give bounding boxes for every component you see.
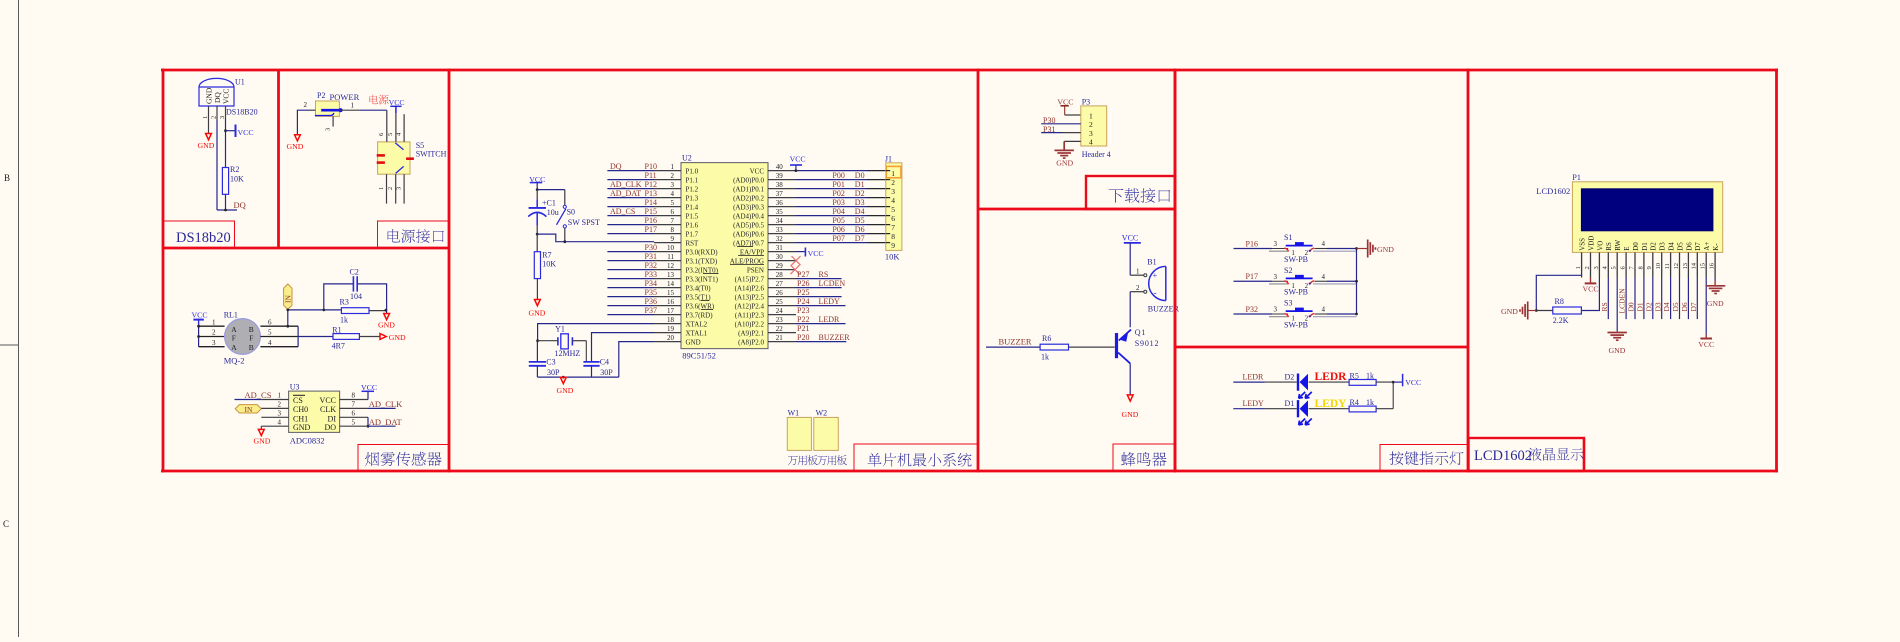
sensor RL1 MQ-2 [225, 319, 261, 355]
wire pin5 to R1 [298, 336, 333, 338]
wire XTAL2 (pin18) [538, 324, 654, 341]
wire LCD pin7 D0 [1634, 278, 1636, 320]
svg-text:P20: P20 [797, 333, 809, 342]
U2 pin 5 [654, 206, 681, 208]
svg-text:LEDY: LEDY [819, 297, 841, 306]
svg-text:VCC: VCC [790, 155, 806, 164]
svg-text:P1.5: P1.5 [686, 212, 699, 220]
svg-text:C3: C3 [546, 358, 555, 367]
resistor R3 [341, 308, 369, 314]
RL1 pin6 wire [260, 325, 298, 327]
svg-text:(A15)P2.7: (A15)P2.7 [735, 275, 765, 283]
U2 pin 25 [768, 305, 796, 307]
wire button GND bus [1356, 249, 1358, 315]
capacitor C1 (polarized) [536, 190, 538, 200]
svg-text:104: 104 [350, 292, 362, 301]
svg-text:C4: C4 [600, 358, 609, 367]
wire LCD pin14 D7 [1696, 278, 1698, 320]
wire/net P34 [607, 287, 654, 289]
U2 pin 3 [654, 188, 681, 190]
svg-text:P02: P02 [832, 189, 844, 198]
svg-text:GND: GND [389, 333, 406, 342]
svg-text:19: 19 [667, 325, 675, 333]
wire U3 pin4 to GND [261, 425, 288, 427]
switch S0 SW SPST [563, 205, 566, 208]
svg-text:P27: P27 [797, 270, 809, 279]
J1 pin stubs inside [886, 170, 890, 172]
S5 pin3 stub [403, 174, 405, 203]
svg-text:4: 4 [1322, 273, 1326, 281]
wire U3 pin3 stub [261, 416, 288, 418]
svg-text:CH0: CH0 [293, 405, 308, 414]
svg-text:SW-PB: SW-PB [1284, 288, 1308, 297]
svg-text:S0: S0 [567, 208, 575, 217]
transistor Q1 S9012 [1115, 333, 1118, 358]
title box buzzer [1113, 444, 1175, 471]
svg-text:24: 24 [776, 307, 784, 315]
svg-text:DS18b20: DS18b20 [176, 230, 231, 246]
svg-text:3: 3 [325, 128, 332, 131]
svg-text:P1.0: P1.0 [686, 167, 699, 175]
divider x278 [277, 70, 280, 248]
svg-text:2: 2 [304, 101, 308, 109]
svg-text:28: 28 [776, 271, 784, 279]
svg-text:25: 25 [776, 298, 784, 306]
svg-text:23: 23 [776, 316, 784, 324]
svg-text:R2: R2 [230, 165, 239, 174]
no-connect X pin29 [791, 265, 800, 274]
svg-text:Header 4: Header 4 [1082, 150, 1111, 159]
svg-text:D7: D7 [1694, 242, 1702, 251]
svg-text:Y1: Y1 [555, 325, 565, 334]
IC U3 ADC0832 [289, 391, 340, 432]
S5 pin4 stub [403, 114, 405, 142]
svg-text:32: 32 [776, 235, 784, 243]
title box power interface [378, 221, 450, 248]
wire/net P35 [607, 296, 654, 298]
wire R7 to GND [536, 279, 538, 300]
svg-text:8: 8 [891, 232, 895, 241]
svg-text:D4: D4 [1662, 302, 1671, 311]
wire LCD pin9 D2 [1652, 278, 1654, 320]
svg-text:P24: P24 [797, 297, 809, 306]
wire/net P06 to J1 [796, 233, 867, 235]
svg-text:2: 2 [891, 178, 895, 187]
svg-text:9: 9 [671, 235, 675, 243]
U2 pin 28 [768, 278, 796, 280]
wire AD_CS to U3 pin1 [235, 399, 262, 401]
svg-text:37: 37 [776, 190, 784, 198]
net flag IN (to CH0) [235, 405, 261, 413]
svg-text:P1: P1 [1572, 173, 1580, 182]
svg-text:33: 33 [776, 226, 784, 234]
wire/net P10 [607, 170, 654, 172]
S5 pin2 stub [395, 174, 397, 203]
svg-text:89C51/52: 89C51/52 [682, 350, 716, 360]
svg-text:15: 15 [667, 289, 675, 297]
section frame right [1775, 69, 1778, 473]
svg-text:P05: P05 [832, 216, 844, 225]
resistor R1 [333, 334, 359, 340]
svg-text:D2: D2 [1650, 242, 1658, 251]
S5 red bar right [406, 157, 414, 160]
divider download bottom [978, 208, 1175, 211]
svg-text:VCC: VCC [192, 310, 208, 319]
wire LCD pin13 D6 [1687, 278, 1689, 320]
svg-text:7: 7 [671, 217, 675, 225]
svg-text:P32: P32 [1246, 305, 1258, 314]
U2 pin 26 [768, 296, 796, 298]
svg-text:GND: GND [287, 142, 304, 151]
svg-text:GND: GND [1501, 307, 1518, 316]
svg-text:D6: D6 [855, 225, 865, 234]
U2 pin 32 [768, 242, 796, 244]
svg-text:C2: C2 [350, 268, 359, 277]
divider x1468 [1467, 69, 1470, 473]
wire/net P05 to J1 [796, 224, 867, 226]
svg-text:30P: 30P [600, 368, 613, 377]
title box smoke sensor [358, 445, 449, 472]
wire GND pin20 [619, 342, 654, 378]
pad W1 [787, 417, 811, 450]
svg-text:P3.7(RD): P3.7(RD) [686, 311, 714, 319]
svg-text:P31: P31 [645, 252, 657, 261]
svg-text:D5: D5 [855, 216, 865, 225]
U2 pin 21 [768, 341, 796, 343]
svg-text:AD_DAT: AD_DAT [610, 189, 641, 198]
svg-text:(A10)P2.2: (A10)P2.2 [735, 320, 765, 328]
wire/net P11 [607, 179, 654, 181]
wire R1 out to GND [359, 336, 380, 338]
svg-text:38: 38 [776, 181, 784, 189]
svg-text:27: 27 [776, 280, 784, 288]
svg-text:VCC: VCC [1122, 233, 1138, 242]
connector P2 POWER [316, 101, 340, 116]
U2 pin 15 [654, 296, 681, 298]
net flag IN (sensor out) [284, 284, 292, 309]
svg-text:(A8)P2.0: (A8)P2.0 [738, 338, 764, 346]
svg-text:D3: D3 [1653, 302, 1662, 311]
svg-text:3: 3 [212, 339, 216, 347]
svg-text:2: 2 [1136, 284, 1140, 292]
wire S3 to GND bus [1315, 313, 1328, 315]
svg-text:P3.1(TXD): P3.1(TXD) [686, 257, 718, 265]
svg-text:12MHZ: 12MHZ [555, 349, 581, 358]
svg-text:6: 6 [352, 410, 356, 418]
wire C1/R7 node to RST [536, 233, 539, 236]
svg-text:P22: P22 [797, 315, 809, 324]
wire/net P31 [607, 260, 654, 262]
svg-text:P37: P37 [645, 306, 657, 315]
svg-text:P3.3(INT1): P3.3(INT1) [686, 275, 719, 283]
svg-text:GND: GND [1377, 245, 1394, 254]
svg-text:14: 14 [1691, 262, 1698, 269]
resistor R6 [1040, 344, 1068, 350]
net label P24 LEDY [796, 305, 846, 307]
S5 pin6 stub [386, 110, 388, 142]
U2 pin 34 [768, 224, 796, 226]
U2 pin 19 [654, 332, 681, 334]
U2 pin 31 [768, 251, 796, 253]
svg-text:22: 22 [776, 325, 784, 333]
wire/net P37 [607, 314, 654, 316]
svg-text:A: A [231, 343, 237, 352]
svg-text:1k: 1k [1041, 352, 1049, 361]
resistor R5 [1309, 381, 1350, 383]
svg-text:XTAL2: XTAL2 [686, 320, 708, 328]
svg-text:VCC: VCC [1698, 340, 1714, 349]
wire XTAL1 (pin19) [592, 333, 655, 362]
svg-text:40: 40 [776, 163, 784, 171]
svg-text:(A12)P2.4: (A12)P2.4 [735, 302, 765, 310]
divider x978 [977, 69, 980, 473]
crystal Y1 12MHZ [538, 340, 558, 342]
S5 lever bottom [396, 166, 404, 173]
svg-text:R6: R6 [1042, 334, 1051, 343]
svg-text:D5: D5 [1676, 242, 1684, 251]
wire R8 to GND [1536, 310, 1553, 312]
svg-text:12: 12 [667, 262, 675, 270]
LCD screen [1581, 189, 1713, 231]
svg-text:2: 2 [671, 172, 675, 180]
svg-text:8: 8 [671, 226, 675, 234]
U2 pin 2 [654, 179, 681, 181]
svg-text:31: 31 [776, 244, 784, 252]
svg-text:IN: IN [283, 295, 292, 303]
wire LEDY to D1 [1233, 408, 1264, 410]
capacitor C2 branch [324, 284, 353, 310]
svg-text:3: 3 [1089, 129, 1093, 138]
S5 pin5 stub [395, 113, 397, 142]
svg-text:3: 3 [1274, 273, 1278, 281]
svg-text:1: 1 [278, 392, 282, 400]
svg-text:P16: P16 [645, 216, 657, 225]
svg-text:2: 2 [278, 401, 282, 409]
svg-text:SW SPST: SW SPST [568, 218, 600, 227]
wire LCD pin11 D4 [1670, 278, 1672, 320]
net label P22 LEDR [796, 323, 846, 325]
S5 red bar left1 [377, 154, 385, 157]
wire VCC bus to RL1 pins [198, 326, 200, 347]
wire/net P33 [607, 278, 654, 280]
U2 pin 38 [768, 188, 796, 190]
svg-text:30P: 30P [547, 368, 560, 377]
svg-text:LEDR: LEDR [1315, 371, 1348, 383]
wire S0 top [564, 190, 566, 206]
svg-text:2: 2 [1089, 120, 1093, 129]
U2 pin 11 [654, 260, 681, 262]
svg-text:D0: D0 [855, 171, 865, 180]
no-connect X pin30 [792, 256, 801, 265]
wire VCC tie to R4 [1392, 382, 1394, 409]
svg-text:GND: GND [1122, 410, 1139, 419]
svg-text:5: 5 [387, 133, 394, 136]
svg-text:POWER: POWER [330, 92, 360, 102]
LCD title box right edge overlay [1583, 438, 1585, 471]
svg-text:P35: P35 [645, 288, 657, 297]
svg-text:13: 13 [667, 271, 675, 279]
svg-text:S2: S2 [1284, 266, 1292, 275]
svg-text:LEDY: LEDY [1243, 399, 1265, 408]
wire R5 to VCC [1376, 381, 1393, 383]
svg-text:D3: D3 [855, 198, 865, 207]
svg-text:P1.6: P1.6 [686, 221, 699, 229]
svg-text:R3: R3 [340, 297, 349, 306]
svg-text:A+: A+ [1703, 242, 1711, 251]
svg-text:34: 34 [776, 217, 784, 225]
section frame bottom [161, 470, 1778, 473]
svg-text:1: 1 [351, 102, 355, 110]
U2 pin 29 [768, 269, 796, 271]
wire/net P13 [607, 197, 654, 199]
svg-text:GND: GND [378, 321, 395, 330]
power VCC (LED) [1393, 381, 1402, 383]
label universal board x2 [788, 456, 798, 465]
svg-text:39: 39 [776, 172, 784, 180]
wire/net P30 [607, 251, 654, 253]
svg-text:GND: GND [254, 437, 271, 446]
svg-text:P3.4(T0): P3.4(T0) [686, 284, 712, 292]
svg-text:P30: P30 [645, 243, 657, 252]
svg-text:6: 6 [268, 318, 272, 326]
svg-text:RST: RST [686, 239, 700, 247]
svg-text:4: 4 [1089, 138, 1093, 147]
U2 pin 10 [654, 251, 681, 253]
svg-text:RS: RS [819, 270, 829, 279]
pad W2 [814, 417, 839, 450]
ground GND (LCD K-, earth) [1706, 285, 1725, 287]
svg-text:DQ: DQ [234, 200, 246, 210]
svg-text:1: 1 [671, 163, 675, 171]
svg-text:26: 26 [776, 289, 784, 297]
svg-text:4R7: 4R7 [332, 342, 345, 351]
svg-text:30: 30 [776, 253, 784, 261]
svg-text:LCDEN: LCDEN [1618, 288, 1627, 314]
wire S2 to GND bus [1315, 280, 1328, 282]
svg-text:P1.7: P1.7 [686, 230, 699, 238]
svg-text:1: 1 [212, 318, 216, 326]
sheet border tick [0, 344, 19, 346]
svg-text:SW-PB: SW-PB [1284, 255, 1308, 264]
svg-text:D1: D1 [1285, 399, 1295, 408]
svg-text:3: 3 [278, 410, 282, 418]
svg-text:1: 1 [1089, 111, 1093, 120]
svg-text:29: 29 [776, 262, 784, 270]
svg-text:36: 36 [776, 199, 784, 207]
wire LCD pin5 RW to GND [1616, 278, 1618, 332]
svg-text:D4: D4 [1668, 242, 1676, 251]
svg-text:U3: U3 [290, 382, 300, 391]
svg-text:P03: P03 [832, 198, 844, 207]
svg-text:VCC: VCC [1405, 378, 1421, 387]
J1 pin1 highlight [886, 166, 901, 177]
svg-text:U1: U1 [235, 78, 245, 87]
svg-text:P16: P16 [1246, 239, 1258, 248]
wire LCD pin8 D1 [1643, 278, 1645, 320]
svg-text:P21: P21 [797, 324, 809, 333]
svg-text:P01: P01 [832, 180, 844, 189]
section frame left [162, 69, 165, 473]
svg-text:(AD5)P0.5: (AD5)P0.5 [733, 221, 764, 229]
svg-text:3: 3 [671, 181, 675, 189]
svg-text:MQ-2: MQ-2 [224, 356, 245, 366]
svg-text:VCC: VCC [750, 167, 765, 175]
power VCC (U2 pin31) [796, 251, 805, 253]
svg-text:11: 11 [667, 253, 674, 261]
resistor R8 [1553, 307, 1582, 314]
svg-text:3: 3 [1274, 306, 1278, 314]
svg-text:LCD1602: LCD1602 [1474, 448, 1532, 464]
svg-text:R1: R1 [332, 325, 341, 334]
svg-text:P04: P04 [832, 207, 844, 216]
LCD pin stubs [1581, 252, 1583, 277]
junction DQ [224, 209, 227, 212]
svg-text:Q1: Q1 [1135, 328, 1146, 337]
net label P27 RS [796, 278, 842, 280]
wire/net P03 to J1 [796, 206, 867, 208]
label power chinese [369, 95, 378, 104]
svg-text:GND: GND [1609, 346, 1626, 355]
svg-text:VCC: VCC [1583, 284, 1599, 293]
wire LCD pin10 D3 [1661, 278, 1663, 320]
net label AD_CLK [340, 407, 368, 409]
svg-text:GND: GND [1707, 299, 1724, 308]
U2 pin 1 [654, 170, 681, 172]
title box MCU minimal system [854, 444, 978, 471]
svg-text:(AD0)P0.0: (AD0)P0.0 [733, 176, 764, 184]
svg-text:P15: P15 [645, 207, 657, 216]
svg-text:RL1: RL1 [224, 310, 238, 319]
U2 pin 7 [654, 224, 681, 226]
ground GND (R1, right arrow) [380, 334, 386, 340]
svg-text:2.2K: 2.2K [1553, 316, 1569, 325]
RL1 pin2 wire [199, 336, 225, 338]
switch S5 [378, 142, 410, 174]
svg-text:VCC: VCC [238, 128, 254, 137]
svg-text:P33: P33 [645, 270, 657, 279]
wire LCD pin6 E [1625, 278, 1627, 320]
title box DS18b20 [163, 221, 235, 248]
capacitor C3 [536, 341, 538, 362]
svg-text:RS: RS [1605, 242, 1613, 251]
svg-text:AD_DAT: AD_DAT [369, 417, 403, 427]
title box LCD1602 [1469, 438, 1585, 471]
svg-text:LCD1602: LCD1602 [1536, 186, 1570, 196]
svg-text:P1.3: P1.3 [686, 194, 699, 202]
wire IN node to R3 [288, 309, 342, 311]
divider buttons bottom [1175, 346, 1468, 349]
svg-text:4: 4 [1322, 240, 1326, 248]
svg-text:S9012: S9012 [1135, 339, 1159, 348]
svg-text:9: 9 [1646, 266, 1653, 269]
svg-text:P3.0(RXD): P3.0(RXD) [686, 248, 719, 256]
svg-text:P17: P17 [645, 225, 657, 234]
U2 pin 36 [768, 206, 796, 208]
svg-text:W2: W2 [816, 409, 828, 418]
wire R3 out [369, 310, 387, 312]
svg-text:(AD2)P0.2: (AD2)P0.2 [733, 194, 764, 202]
wire P2 pin1 to S5 pin6 [340, 109, 360, 111]
wire U3 pin6 tie to pin5 [340, 416, 368, 418]
U2 pin 40 [768, 170, 796, 172]
U2 pin 35 [768, 215, 796, 217]
divider x1175 [1174, 69, 1177, 473]
U2 pin 13 [654, 278, 681, 280]
svg-text:VCC: VCC [320, 396, 336, 405]
svg-text:IN: IN [245, 405, 253, 414]
wire S1 to GND bus [1315, 248, 1328, 250]
svg-text:(AD6)P0.6: (AD6)P0.6 [733, 230, 764, 238]
